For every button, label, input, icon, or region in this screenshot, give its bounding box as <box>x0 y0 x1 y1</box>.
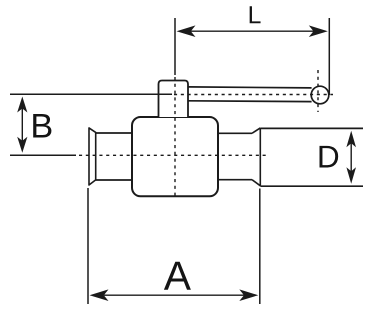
centerline: pipe horizontal axis <box>79 154 268 156</box>
right cone transition <box>252 128 260 186</box>
extension line A right <box>259 189 261 305</box>
label B <box>33 114 51 138</box>
dimension arrows D <box>346 131 356 184</box>
label D <box>320 146 339 168</box>
dimension line L <box>177 25 328 37</box>
centerline: handle axis <box>174 94 333 96</box>
label A <box>164 262 191 290</box>
label L <box>250 6 261 23</box>
extension line L left <box>174 18 176 75</box>
handle bar <box>188 87 312 102</box>
extension line A left <box>87 188 89 304</box>
handle ball end <box>311 86 329 104</box>
left pipe neck <box>96 133 133 180</box>
valve body <box>132 117 218 196</box>
centerline: ball vertical axis <box>317 70 319 112</box>
left ferrule (clamp face) <box>89 128 96 185</box>
stem (bonnet) <box>159 81 189 118</box>
extension line B top <box>10 93 172 95</box>
centerline: stem vertical axis <box>174 77 176 196</box>
extension line B bottom <box>10 154 76 156</box>
right pipe neck <box>218 133 253 179</box>
dimension line A <box>90 289 259 301</box>
right cylinder (outlet body) <box>260 128 363 186</box>
extension line L right <box>328 18 330 95</box>
dimension arrows B <box>17 97 27 153</box>
